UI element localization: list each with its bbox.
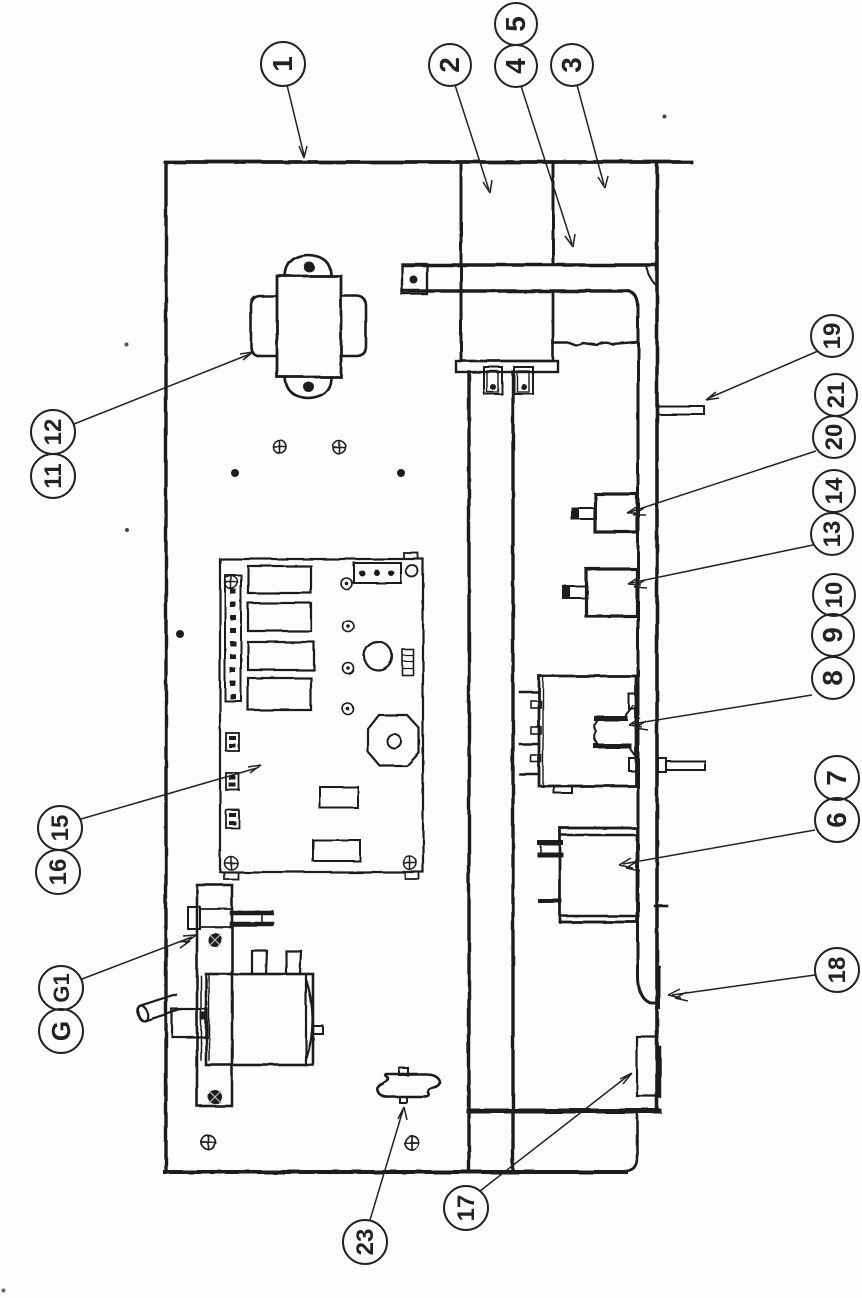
- svg-text:2: 2: [434, 57, 465, 73]
- pcb buzzer octagon: [368, 715, 419, 766]
- valve left notches: [531, 701, 541, 708]
- duct inner fillet: [646, 266, 656, 285]
- pcb screw top-left: [225, 576, 238, 589]
- compartment divider vertical B: [552, 163, 555, 264]
- pcb screw bottom-right: [404, 857, 417, 870]
- valve bottom tab: [554, 786, 572, 793]
- pcb 3-pin connector: [354, 563, 401, 583]
- impeller 23: [399, 1068, 408, 1075]
- screw B: [333, 441, 346, 454]
- solenoid 13-14 body: [586, 569, 637, 616]
- leader 13: [628, 545, 813, 588]
- callout circle 8: [812, 657, 854, 699]
- right side wall: [655, 162, 659, 1109]
- pcb foot right: [405, 872, 419, 879]
- svg-text:17: 17: [453, 1195, 480, 1222]
- pcb screw bottom-left: [225, 857, 238, 870]
- svg-text:3: 3: [556, 57, 587, 73]
- motor body: [206, 974, 313, 1065]
- leader 8: [629, 695, 812, 730]
- terminal strip: [225, 575, 241, 701]
- dot C: [176, 630, 184, 638]
- pcb mid rect: [320, 787, 358, 808]
- motor terminal A: [252, 951, 267, 974]
- leader G1: [82, 935, 196, 979]
- leader 4: [521, 86, 575, 247]
- callout circle 21: [815, 374, 857, 416]
- callout circle 20: [813, 416, 855, 458]
- stray speck left: [125, 528, 129, 532]
- bracket left box: [188, 907, 200, 929]
- svg-text:10: 10: [821, 582, 848, 609]
- callout circle 3: [551, 44, 593, 86]
- relay K1: [248, 566, 311, 593]
- panel screw bottom-mid: [405, 1136, 419, 1150]
- svg-text:21: 21: [823, 382, 850, 409]
- dip component 1: [226, 733, 239, 751]
- channel vertical left: [467, 372, 470, 1171]
- leader 18: [668, 975, 815, 1001]
- rail end cap: [402, 264, 427, 294]
- callout circle 12: [31, 410, 75, 454]
- leader 3: [577, 85, 608, 188]
- relay K4: [248, 678, 311, 710]
- transformer right tab: [341, 296, 366, 356]
- motor terminal B: [286, 951, 301, 974]
- mounting rail bottom edge: [403, 289, 628, 293]
- leader 23: [370, 1107, 407, 1220]
- handle mount: [172, 1009, 207, 1037]
- screw A: [274, 441, 287, 454]
- svg-text:7: 7: [821, 770, 852, 786]
- pcb hole 2: [343, 621, 354, 632]
- svg-text:9: 9: [817, 627, 848, 643]
- svg-text:13: 13: [819, 521, 846, 548]
- bracket screw bottom: [208, 1090, 222, 1104]
- panel left edge: [164, 162, 167, 1172]
- pcb bottom rect: [313, 840, 360, 861]
- wall tick: [655, 905, 667, 908]
- valve left pins: [520, 692, 539, 774]
- callout circle 9: [812, 614, 854, 656]
- dot A: [231, 469, 239, 477]
- pcb board outline: [220, 559, 423, 872]
- pcb edge component: [402, 649, 413, 675]
- callout circle 10: [813, 574, 855, 616]
- motor shaft nub: [313, 1026, 323, 1034]
- solenoid 13-14 plunger: [563, 586, 587, 598]
- panel bottom edge: [165, 1170, 626, 1174]
- compartment divider vertical A: [460, 163, 463, 361]
- panel screw bottom-left: [201, 1135, 215, 1149]
- transformer core: [277, 276, 341, 377]
- valve 8-9-10 body: [539, 676, 636, 786]
- contactor flange: [456, 361, 558, 372]
- callout circle 6: [815, 798, 859, 842]
- duct inner line: [628, 291, 658, 1003]
- svg-text:1: 1: [267, 56, 298, 72]
- svg-text:4: 4: [500, 58, 531, 74]
- stray speck left upper: [124, 342, 128, 346]
- leader 2: [455, 85, 492, 193]
- callout circle 15: [38, 806, 82, 850]
- callout circle 14: [813, 470, 855, 512]
- leader 20: [627, 451, 816, 515]
- valve socket notch: [624, 706, 636, 757]
- callout circle G: [39, 1009, 83, 1053]
- stray speck bottom left: [2, 1289, 6, 1293]
- dip component 3: [226, 810, 239, 828]
- callout circle 4: [495, 45, 537, 87]
- svg-text:19: 19: [819, 323, 846, 350]
- callout circle 16: [36, 850, 80, 894]
- dip component 2: [226, 773, 239, 790]
- bracket screw top: [208, 933, 222, 947]
- svg-text:14: 14: [821, 477, 848, 504]
- leader 6: [619, 830, 815, 871]
- callout circle 7: [815, 756, 859, 800]
- pump 6-7 top tab: [540, 841, 561, 846]
- callout circle 11: [31, 454, 75, 498]
- transformer top bell: [285, 255, 331, 276]
- svg-text:6: 6: [821, 812, 852, 828]
- svg-text:16: 16: [45, 859, 72, 886]
- fuse holder A: [484, 367, 502, 394]
- motor end cap: [306, 974, 313, 1065]
- bracket pipe: [232, 911, 272, 916]
- relay K2: [248, 603, 311, 631]
- callout circle 5: [495, 3, 537, 45]
- fuse holder B: [514, 367, 533, 394]
- component 17 rect: [637, 1037, 658, 1096]
- pcb hole 1: [342, 579, 353, 590]
- pcb foot left: [224, 872, 238, 879]
- transformer bottom bell: [285, 377, 331, 398]
- callout circle 1: [261, 42, 305, 86]
- panel top edge: [165, 160, 691, 164]
- leader 12: [74, 352, 253, 424]
- valve right tab lower: [629, 758, 636, 771]
- mounting rail top edge: [403, 263, 655, 267]
- pcb hole top-right: [406, 565, 418, 577]
- solenoid 20-21 plunger: [572, 508, 596, 519]
- pump 6-7 bottom pin: [540, 899, 560, 903]
- leader 15: [81, 765, 261, 819]
- solenoid 20-21 body: [595, 494, 637, 532]
- handle cylinder: [136, 994, 181, 1022]
- pcb top tab: [404, 553, 418, 559]
- rod 19: [659, 406, 704, 414]
- svg-text:23: 23: [352, 1229, 379, 1256]
- svg-text:G1: G1: [49, 973, 74, 1002]
- pcb hole 4: [343, 704, 354, 715]
- svg-text:15: 15: [47, 815, 74, 842]
- svg-text:18: 18: [824, 957, 851, 984]
- wavy box below rail right: [553, 293, 636, 345]
- bottom right rounded corner: [626, 1113, 637, 1171]
- svg-text:20: 20: [821, 424, 848, 451]
- pcb big circle: [364, 642, 392, 670]
- callout circle 17: [444, 1186, 488, 1230]
- svg-text:12: 12: [40, 419, 67, 446]
- plate inner slot: [201, 976, 209, 1060]
- stray speck top right: [662, 114, 666, 118]
- rod lower: [658, 758, 666, 772]
- leader 17: [480, 1073, 632, 1191]
- channel vertical right: [511, 372, 514, 1171]
- callout circle 23: [343, 1220, 387, 1264]
- bracket plate: [197, 885, 232, 1106]
- callout circle 18: [815, 948, 859, 992]
- leader 19: [706, 351, 818, 400]
- dot B: [397, 469, 405, 477]
- svg-text:11: 11: [40, 463, 67, 488]
- bracket band lines: [200, 909, 232, 927]
- pcb hole 3: [343, 663, 354, 674]
- callout circle 2: [429, 44, 471, 86]
- svg-text:8: 8: [817, 670, 848, 686]
- svg-text:5: 5: [500, 16, 531, 32]
- valve right tab upper: [629, 694, 636, 709]
- relay K3: [248, 642, 314, 670]
- transformer left tab: [251, 296, 277, 356]
- rail end cap dot: [410, 276, 418, 284]
- leader 1: [287, 85, 307, 158]
- callout circle G1: [39, 966, 83, 1010]
- callout circle 13: [811, 513, 853, 555]
- callout circle 19: [811, 315, 853, 357]
- pump 6-7 body: [560, 828, 637, 922]
- thick bottom duct line: [469, 1109, 659, 1114]
- contactor box below rail: [461, 293, 553, 361]
- svg-text:G: G: [46, 1021, 76, 1041]
